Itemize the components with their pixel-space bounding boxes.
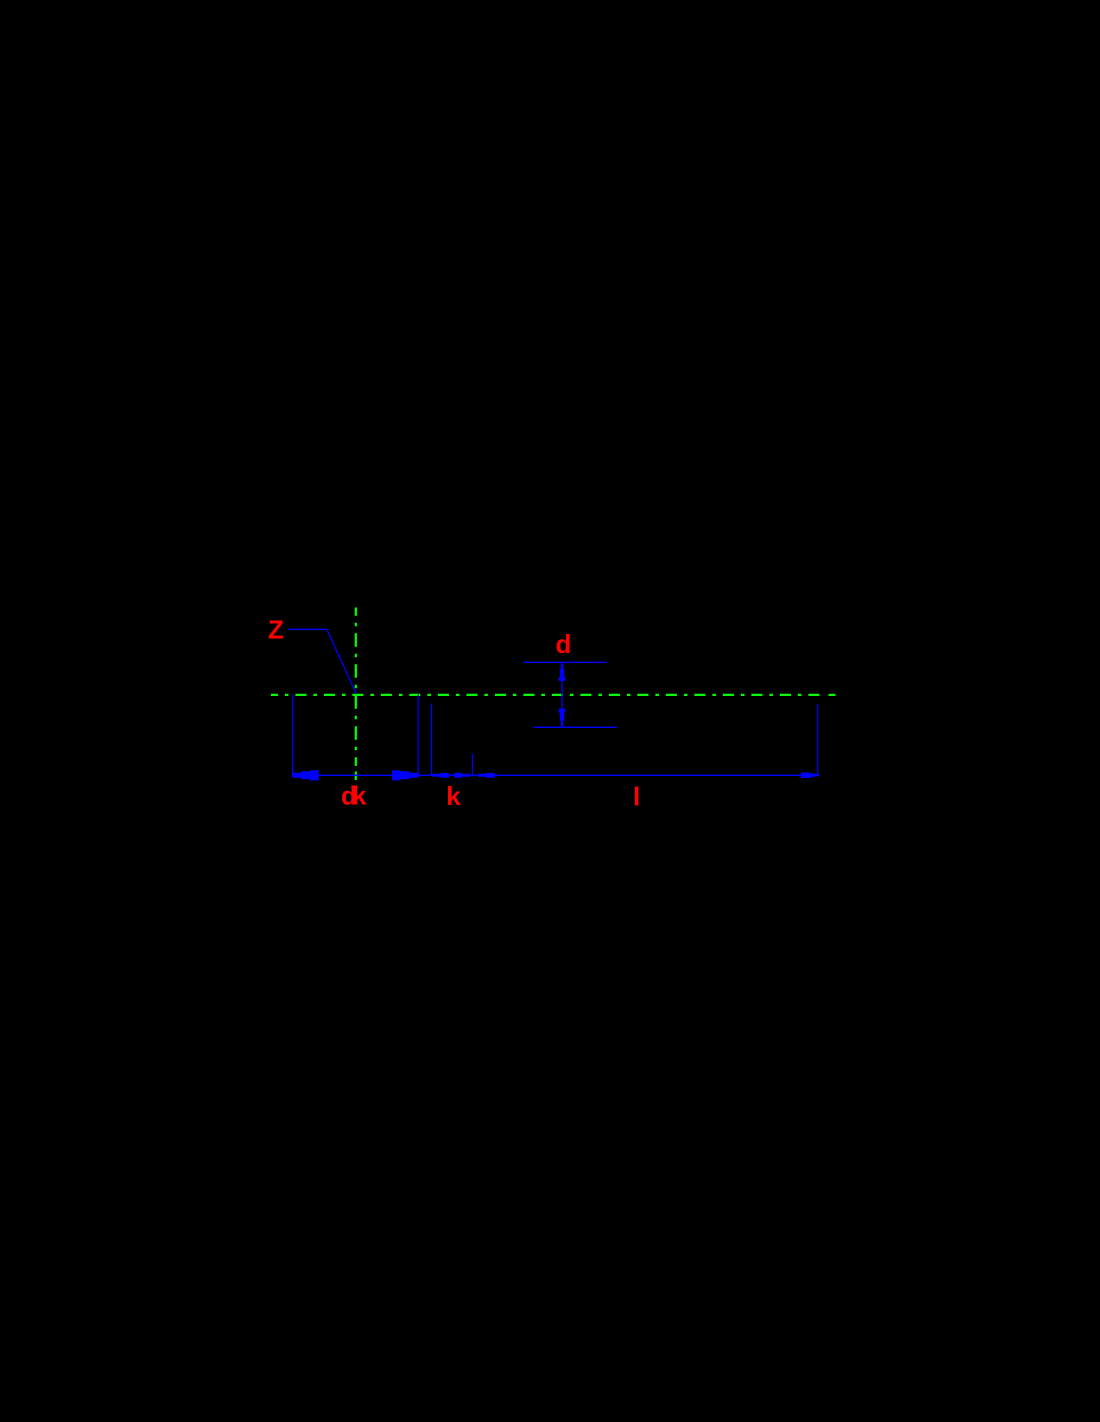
extension line k left [431, 704, 433, 776]
leader line Z [288, 629, 356, 694]
arrow dk left [293, 770, 319, 780]
arrow l left [478, 773, 495, 778]
centerline vertical end dash [355, 772, 357, 781]
arrow dk right [392, 770, 418, 780]
extension line dk left [292, 695, 294, 777]
arrow k right [454, 773, 470, 778]
centerline horizontal (green dash-dot) [271, 694, 824, 696]
extension line l right [817, 704, 819, 776]
drawing canvas plate [250, 411, 850, 1011]
svg-text:Z: Z [268, 615, 284, 645]
svg-text:d: d [556, 629, 572, 659]
centerline horizontal end dash [829, 694, 836, 696]
arrow k left [433, 773, 449, 778]
arrow d up [559, 663, 565, 681]
svg-text:k: k [446, 781, 461, 811]
dimension d bottom line [534, 726, 617, 728]
extension tick k right [471, 754, 473, 776]
centerline vertical (green dash-dot) [355, 608, 357, 767]
dimension line bottom [293, 774, 818, 776]
dimension d vertical line [561, 663, 563, 727]
svg-text:l: l [633, 782, 640, 812]
arrow d down [559, 709, 565, 727]
arrow l right [801, 773, 819, 779]
extension line dk right [417, 695, 419, 777]
dimension d top line [524, 661, 607, 663]
